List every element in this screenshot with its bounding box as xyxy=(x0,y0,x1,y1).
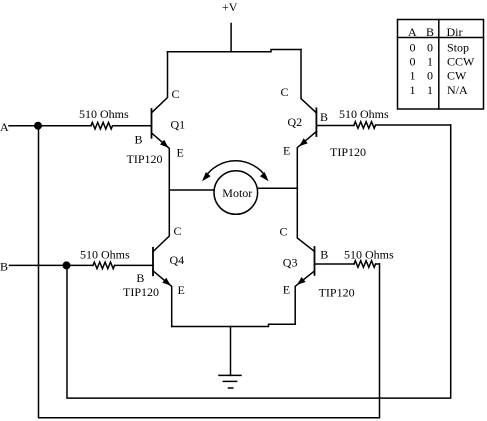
svg-text:Q2: Q2 xyxy=(288,115,303,129)
svg-text:C: C xyxy=(172,87,180,101)
svg-text:CCW: CCW xyxy=(447,55,475,69)
svg-text:E: E xyxy=(177,146,184,160)
svg-text:0: 0 xyxy=(410,41,416,55)
svg-text:Dir: Dir xyxy=(447,25,463,39)
svg-text:A: A xyxy=(408,25,417,39)
svg-text:B: B xyxy=(426,25,434,39)
svg-text:Motor: Motor xyxy=(222,186,252,200)
svg-text:0: 0 xyxy=(410,55,416,69)
svg-text:1: 1 xyxy=(410,69,416,83)
svg-text:CW: CW xyxy=(447,69,467,83)
svg-text:C: C xyxy=(281,85,289,99)
svg-text:B: B xyxy=(0,260,8,274)
svg-text:TIP120: TIP120 xyxy=(319,286,355,300)
svg-text:C: C xyxy=(280,225,288,239)
svg-text:510 Ohms: 510 Ohms xyxy=(344,248,394,262)
svg-text:510 Ohms: 510 Ohms xyxy=(79,107,129,121)
svg-text:Q3: Q3 xyxy=(283,256,298,270)
svg-text:510 Ohms: 510 Ohms xyxy=(339,107,389,121)
svg-text:E: E xyxy=(178,283,185,297)
svg-text:B: B xyxy=(135,133,143,147)
svg-text:Q1: Q1 xyxy=(171,118,186,132)
svg-text:1: 1 xyxy=(427,55,433,69)
svg-text:1: 1 xyxy=(410,83,416,97)
svg-text:E: E xyxy=(283,283,290,297)
svg-text:0: 0 xyxy=(427,69,433,83)
svg-text:TIP120: TIP120 xyxy=(330,145,366,159)
svg-text:TIP120: TIP120 xyxy=(127,152,163,166)
svg-text:B: B xyxy=(320,248,328,262)
svg-text:A: A xyxy=(0,120,9,134)
svg-text:B: B xyxy=(320,110,328,124)
svg-text:+V: +V xyxy=(222,0,238,14)
svg-text:B: B xyxy=(136,271,144,285)
svg-text:1: 1 xyxy=(427,83,433,97)
svg-text:0: 0 xyxy=(427,41,433,55)
svg-text:TIP120: TIP120 xyxy=(123,285,159,299)
svg-text:510 Ohms: 510 Ohms xyxy=(80,248,130,262)
svg-text:N/A: N/A xyxy=(447,83,468,97)
svg-text:C: C xyxy=(174,224,182,238)
svg-text:Q4: Q4 xyxy=(170,253,185,267)
svg-text:E: E xyxy=(283,144,290,158)
svg-text:Stop: Stop xyxy=(447,41,469,55)
